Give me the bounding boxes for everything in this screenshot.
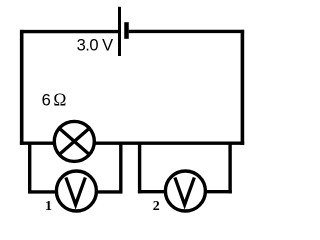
svg-text:6 Ω: 6 Ω (42, 90, 67, 110)
wire top-left segment (20, 30, 120, 33)
svg-text:1: 1 (45, 199, 52, 214)
battery B1 long plate (118, 7, 121, 56)
voltmeter V1 (56, 171, 96, 211)
wire voltmeter-2 branch right drop (228, 142, 231, 194)
wire voltmeter-1 branch left drop (28, 142, 31, 194)
wire voltmeter-1 branch bottom (28, 190, 123, 193)
wire voltmeter-1 branch right drop (119, 142, 122, 194)
wire right side (241, 30, 245, 145)
wire bottom rail (20, 141, 244, 144)
wire left side (20, 30, 24, 145)
wire voltmeter-2 branch bottom (138, 190, 232, 193)
wire top-right segment (129, 30, 244, 33)
svg-text:3.0 V: 3.0 V (77, 37, 114, 55)
svg-text:2: 2 (153, 199, 160, 214)
voltmeter V2 (165, 171, 205, 211)
wire voltmeter-2 branch left drop (138, 142, 141, 194)
battery B1 short thick plate (124, 22, 129, 39)
lamp (circle with X) (54, 121, 94, 161)
